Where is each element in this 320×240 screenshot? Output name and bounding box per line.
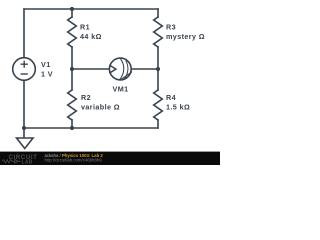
svg-text:R3: R3 xyxy=(166,23,176,32)
svg-text:1 V: 1 V xyxy=(41,70,53,79)
svg-text:LAB: LAB xyxy=(22,159,33,165)
svg-text:R2: R2 xyxy=(81,93,91,102)
svg-text:44 kΩ: 44 kΩ xyxy=(80,32,102,41)
svg-text:R4: R4 xyxy=(166,93,176,102)
svg-text:VM1: VM1 xyxy=(113,85,129,94)
svg-text:V1: V1 xyxy=(41,60,51,69)
svg-text:1.5 kΩ: 1.5 kΩ xyxy=(166,103,190,112)
svg-text:mystery Ω: mystery Ω xyxy=(166,32,205,41)
svg-text:variable Ω: variable Ω xyxy=(81,103,120,112)
svg-text:R1: R1 xyxy=(80,23,90,32)
svg-text:http://circuitlab.com/c46bh8h9: http://circuitlab.com/c46bh8h9 xyxy=(45,157,103,162)
